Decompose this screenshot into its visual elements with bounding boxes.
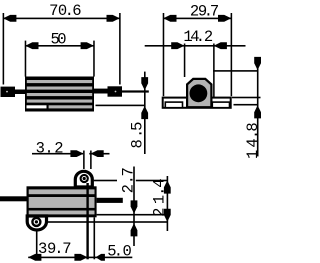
body bottom extension line (97, 214, 168, 216)
extension line right 50 (93, 41, 95, 77)
svg-text:21.4: 21.4 (150, 178, 168, 216)
extension line flange top right (line B) (232, 97, 261, 99)
dimension 2.7 label (rotated) (120, 167, 138, 193)
right wire (top view) (97, 198, 123, 203)
extension line left 50 (25, 41, 27, 77)
dimension 14.8 label (rotated) (244, 122, 262, 159)
dimension 29.7 line with arrows (163, 15, 231, 22)
extension line left 3.2 (83, 151, 85, 170)
bottom tab hole ring (32, 218, 40, 226)
hole centre extension line E (48, 221, 168, 223)
extension line right 3.2 (90, 151, 92, 170)
dimension 39.7 line with arrows (28, 254, 87, 261)
svg-text:39.7: 39.7 (38, 240, 72, 258)
housing (end view) (187, 79, 211, 107)
dimension 5.0 line with arrows (87, 254, 132, 261)
bottom mounting tab (27, 216, 46, 230)
svg-text:14.8: 14.8 (244, 122, 262, 159)
extension line left 14.2 (184, 44, 186, 78)
bottom tab hole center dot (35, 220, 38, 223)
right lead terminal (108, 86, 123, 96)
dimension 8.5 arrows (141, 77, 148, 119)
extension line left 70.6 (3, 13, 5, 85)
left lead terminal (1, 87, 16, 97)
extension line top right (line A) (213, 70, 258, 72)
dimension 8.5 vertical line (144, 72, 146, 154)
dimension 14.2 line (145, 45, 246, 47)
dimension 21.4 arrows (164, 180, 171, 222)
body edge extension V_c vertical (94, 217, 96, 259)
extension line left 29.7 (163, 13, 165, 96)
dimension 14.8 vertical line (257, 58, 259, 157)
dimension 2.7 arrows (131, 200, 138, 236)
right wire extension line (122, 90, 149, 92)
dimension 3.2 label (36, 140, 64, 158)
side view finned body (25, 77, 94, 112)
dimension 29.7 label (190, 3, 219, 21)
svg-text:70.6: 70.6 (49, 2, 82, 20)
extension line right 14.2 (213, 44, 215, 100)
hole centre line V_a vertical (36, 231, 38, 259)
dimension 14.2 label (183, 28, 213, 46)
extension line right 29.7 (231, 13, 233, 96)
dimension 2.7 vertical line (133, 167, 135, 247)
svg-text:14.2: 14.2 (183, 28, 213, 46)
dimension 14.2 arrows (outside, pointing inward) (171, 42, 227, 49)
left wire (top view) (0, 196, 27, 201)
dimension 21.4 label (rotated) (150, 178, 168, 216)
svg-text:2.7: 2.7 (120, 167, 138, 193)
hole centre line V_b vertical (86, 183, 88, 259)
left wire (15, 90, 25, 95)
hole centre extension line D (94, 180, 117, 182)
dimension 5.0 label (107, 242, 132, 260)
extension line right 70.6 (119, 13, 121, 85)
svg-text:8.5: 8.5 (129, 122, 147, 149)
right mounting slot (212, 102, 229, 108)
dimension 39.7 label (38, 240, 72, 258)
extension line body bottom for 8.5 (96, 105, 146, 107)
dimension 8.5 label (rotated) (129, 122, 147, 149)
left mounting slot (165, 102, 182, 108)
right wire (94, 89, 108, 94)
center hole (end view) (190, 84, 208, 102)
mounting flange (end view) (163, 98, 231, 108)
dimension 14.8 arrows (254, 57, 261, 119)
dimension 70.6 label (49, 2, 82, 20)
top tab hole center dot (83, 177, 86, 180)
dimension 21.4 vertical line (167, 176, 169, 231)
svg-text:3.2: 3.2 (36, 140, 64, 158)
dimension 70.6 line with arrows (3, 15, 120, 22)
dimension 50 line with arrows (25, 42, 94, 49)
top mounting tab (75, 171, 92, 187)
dimension 50 label (51, 30, 67, 48)
top tab hole ring (81, 175, 88, 182)
extension line flange bottom right (line F) (234, 104, 258, 106)
top view body (27, 186, 97, 217)
dimension 3.2 line and arrows (32, 150, 110, 157)
